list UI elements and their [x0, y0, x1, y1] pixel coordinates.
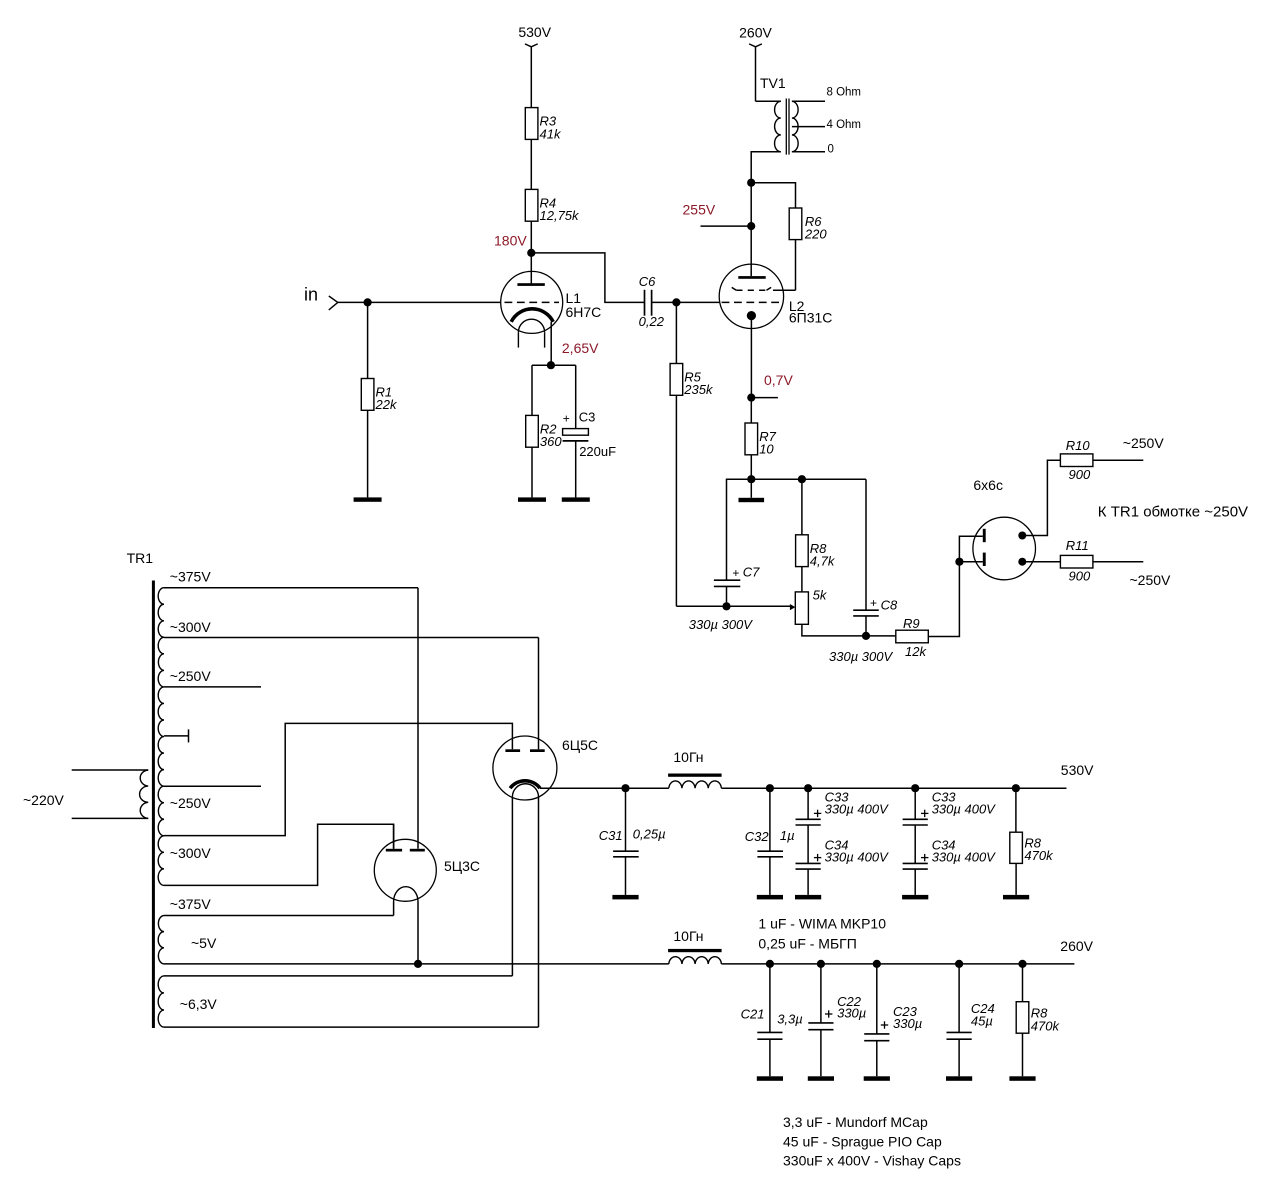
wire	[531, 447, 533, 497]
svg-text:4,7k: 4,7k	[810, 554, 836, 569]
6x6c plate bar lower	[983, 553, 986, 566]
rectifier tube 5Ts3S envelope	[374, 839, 436, 901]
wire R9 to rectifier	[928, 536, 983, 636]
ground	[795, 895, 821, 900]
ground	[864, 1076, 890, 1081]
rectifier tube 6x6c envelope	[973, 517, 1036, 580]
5Ts3S filament arc	[394, 887, 418, 902]
node C33/C34 junction	[911, 784, 919, 792]
svg-text:8 Ohm: 8 Ohm	[827, 87, 862, 99]
resistor R1 22k	[361, 379, 374, 411]
svg-text:330µ 400V: 330µ 400V	[825, 802, 889, 817]
TR1 6,3V winding	[158, 976, 164, 1027]
svg-text:2,65V: 2,65V	[562, 340, 599, 356]
wire	[367, 302, 369, 378]
svg-text:+: +	[732, 566, 739, 580]
L2 screen grid dashed	[732, 287, 737, 290]
node C7 bottom junction	[722, 602, 730, 610]
svg-text:TR1: TR1	[127, 550, 154, 566]
6Ts5S plate bar right	[530, 749, 545, 752]
wire cathode upper to R10	[1022, 460, 1060, 535]
svg-text:180V: 180V	[494, 233, 527, 249]
ground	[902, 895, 928, 900]
resistor R10 900	[1060, 454, 1093, 467]
svg-text:260V: 260V	[1060, 938, 1093, 954]
svg-text:3,3 uF - Mundorf MCap: 3,3 uF - Mundorf MCap	[783, 1114, 928, 1130]
wire	[750, 455, 752, 479]
ground	[612, 895, 638, 900]
svg-text:330µ 300V: 330µ 300V	[829, 649, 893, 664]
wire	[755, 47, 757, 102]
svg-text:~375V: ~375V	[170, 569, 212, 585]
svg-text:in: in	[304, 285, 318, 305]
5Ts3S plate bar left	[386, 849, 402, 852]
svg-text:330µ 400V: 330µ 400V	[932, 802, 996, 817]
TV1 tap 4 Ohm	[792, 126, 825, 128]
wire	[959, 561, 982, 563]
wire input	[338, 301, 501, 303]
node C32 junction	[766, 784, 774, 792]
ground	[757, 895, 783, 900]
wire tap to 5Ts3S right plate	[417, 588, 419, 849]
TR1 tap ~300V upper	[164, 637, 539, 639]
5Ts3S filament left leg	[393, 902, 395, 916]
pentode L2 6P31S envelope	[719, 264, 783, 328]
node cathode R7 junction	[747, 394, 755, 402]
TR1 HV winding	[158, 588, 164, 886]
svg-text:220: 220	[804, 227, 827, 242]
TV1 primary winding	[775, 101, 781, 152]
svg-text:45 uF - Sprague PIO Cap: 45 uF - Sprague PIO Cap	[783, 1134, 942, 1150]
L1 anode lead and plate	[517, 283, 544, 286]
svg-text:4 Ohm: 4 Ohm	[827, 119, 862, 131]
L2 cathode dot	[747, 311, 756, 320]
TR1 tap ~375V upper	[164, 587, 418, 589]
svg-text:45µ: 45µ	[971, 1014, 993, 1029]
wire	[1015, 788, 1017, 832]
wire 0,7V stub	[751, 397, 778, 399]
svg-text:R9: R9	[903, 616, 920, 631]
svg-text:~250V: ~250V	[170, 668, 212, 684]
svg-text:C32: C32	[745, 829, 770, 844]
svg-text:0: 0	[828, 144, 834, 156]
wire	[801, 479, 803, 535]
L2 cathode lead	[750, 316, 752, 398]
L1 grid dashed	[505, 301, 560, 303]
wire cathode network	[532, 364, 576, 366]
5Ts3S plate bar right	[410, 849, 425, 852]
svg-text:+: +	[870, 596, 877, 610]
L1 cathode arc	[511, 309, 553, 322]
svg-text:330uF x 400V - Vishay Caps: 330uF x 400V - Vishay Caps	[783, 1152, 961, 1168]
TV1 secondary winding	[792, 101, 798, 152]
L2 anode lead	[750, 226, 752, 276]
svg-text:530V: 530V	[1061, 762, 1094, 778]
svg-text:~300V: ~300V	[170, 845, 212, 861]
node C6/R5 junction	[672, 298, 680, 306]
svg-text:C3: C3	[579, 410, 596, 425]
TR1 core	[152, 581, 155, 1029]
svg-text:C21: C21	[741, 1007, 765, 1022]
svg-text:~300V: ~300V	[170, 619, 212, 635]
ground	[518, 497, 546, 501]
ground	[757, 1076, 783, 1081]
svg-text:530V: 530V	[518, 24, 551, 40]
6x6c plate bar upper	[983, 529, 986, 542]
wire	[530, 139, 532, 189]
L1 heater arc	[518, 319, 544, 332]
svg-text:~6,3V: ~6,3V	[180, 996, 218, 1012]
TR1 center tap	[164, 735, 189, 737]
capacitor C23 330u	[876, 964, 878, 1034]
potentiometer 5k	[795, 592, 808, 624]
svg-text:0,7V: 0,7V	[764, 372, 793, 388]
node TV1/R6 junction	[747, 179, 755, 187]
svg-text:10Гн: 10Гн	[673, 928, 703, 944]
svg-text:255V: 255V	[683, 202, 716, 218]
svg-text:330µ: 330µ	[893, 1016, 922, 1031]
svg-text:+: +	[563, 411, 570, 425]
svg-text:~250V: ~250V	[1123, 435, 1165, 451]
capacitor C32 1u	[769, 788, 771, 851]
svg-text:~220V: ~220V	[23, 792, 65, 808]
wire 6,3V bottom to heater	[538, 797, 540, 1027]
6Ts5S heater arc	[512, 784, 538, 797]
ground	[1003, 895, 1029, 900]
wire R5 to wiper	[675, 395, 677, 606]
node C22 junction	[817, 960, 825, 968]
svg-text:0,22: 0,22	[639, 314, 665, 329]
L1 cathode wire	[550, 322, 552, 365]
rectifier tube 6Ts5S envelope	[493, 736, 557, 800]
6Ts5S plate bar left	[505, 749, 520, 752]
wire primary leads ~220V	[72, 769, 149, 771]
wire	[530, 47, 532, 108]
svg-text:330µ 400V: 330µ 400V	[932, 850, 996, 865]
svg-text:470k: 470k	[1024, 848, 1054, 863]
capacitor C31 0,25u	[625, 788, 627, 851]
wire R6 to screen	[795, 240, 797, 291]
wire 260V rail	[721, 963, 1074, 965]
TR1 tap ~375V lower	[164, 824, 394, 885]
wire	[530, 221, 532, 283]
node R8 260V junction	[1018, 960, 1026, 968]
wire	[367, 410, 369, 497]
node C24 junction	[955, 960, 963, 968]
capacitor C8 330u 300V	[865, 479, 867, 610]
node C33/C34 junction	[804, 784, 812, 792]
TV1 core	[785, 99, 787, 155]
svg-text:R11: R11	[1066, 538, 1089, 553]
svg-text:330µ: 330µ	[837, 1006, 866, 1021]
node C21 junction	[766, 960, 774, 968]
resistor R8 470k lower	[1016, 1002, 1029, 1033]
wire 530V rail	[721, 787, 1066, 789]
wire R10 output	[1093, 459, 1143, 461]
wire C6 to L2 grid	[652, 301, 720, 303]
wire	[1022, 1033, 1024, 1076]
TR1 tap ~300V lower	[164, 723, 512, 835]
L2 control grid dashed	[722, 301, 782, 303]
node 255V junction	[747, 222, 755, 230]
L1 heater stubs	[517, 332, 519, 347]
capacitor C22 330u	[820, 964, 822, 1023]
wire 530V rail	[540, 787, 669, 789]
wire cathode lower to R11	[1022, 561, 1060, 563]
svg-text:6x6c: 6x6c	[973, 477, 1003, 493]
wire 255V stub	[701, 225, 752, 227]
svg-text:R10: R10	[1066, 438, 1091, 453]
wire to C7	[727, 479, 752, 580]
node cathode junction	[547, 361, 555, 369]
wire	[675, 302, 677, 363]
TR1 tap ~250V lower	[164, 785, 261, 787]
TV1 tap 8 Ohm	[792, 100, 825, 102]
svg-text:C6: C6	[639, 274, 656, 289]
svg-text:6Н7С: 6Н7С	[566, 304, 602, 320]
wire R6 branch	[751, 183, 795, 208]
resistor R6 220	[789, 208, 802, 240]
resistor R3 41k	[525, 108, 538, 140]
svg-text:TV1: TV1	[760, 75, 786, 91]
resistor R5 235k	[670, 364, 683, 396]
node C8 bottom junction	[862, 632, 870, 640]
svg-text:10: 10	[759, 442, 774, 457]
6x6c cathode dot upper	[1018, 532, 1026, 540]
svg-text:К TR1 обмотке ~250V: К TR1 обмотке ~250V	[1098, 503, 1248, 520]
node 180V junction	[527, 249, 535, 257]
svg-text:22k: 22k	[375, 397, 398, 412]
wire R11 output	[1093, 561, 1143, 563]
wire 260V rail from TR1	[164, 963, 669, 965]
capacitor C21 3,3u	[769, 964, 771, 1033]
resistor R2 360	[526, 415, 539, 447]
svg-text:330µ 400V: 330µ 400V	[825, 850, 889, 865]
svg-text:1 uF - WIMA MKP10: 1 uF - WIMA MKP10	[758, 916, 886, 932]
ground	[946, 1076, 972, 1081]
capacitor C7 330u 300V	[714, 579, 740, 581]
svg-text:220uF: 220uF	[579, 444, 616, 459]
node C23 junction	[873, 960, 881, 968]
svg-text:260V: 260V	[739, 25, 772, 41]
node R7 bottom junction	[747, 475, 755, 483]
resistor R8 470k upper	[1010, 832, 1023, 863]
svg-text:12,75k: 12,75k	[540, 208, 581, 223]
node R8 top junction	[798, 475, 806, 483]
svg-text:3,3µ: 3,3µ	[777, 1012, 803, 1027]
svg-text:235k: 235k	[683, 382, 714, 397]
capacitor C33 330u 400V	[807, 788, 809, 819]
wire	[1022, 964, 1024, 1002]
capacitor C34 330u 400V	[914, 825, 916, 863]
svg-text:900: 900	[1069, 467, 1091, 482]
ground	[808, 1076, 834, 1081]
choke 10Gn lower	[668, 949, 722, 952]
TR1 primary winding	[140, 770, 149, 818]
svg-text:12k: 12k	[905, 644, 927, 659]
node input junction	[364, 298, 372, 306]
L2 plate	[738, 276, 765, 279]
svg-text:1µ: 1µ	[780, 828, 795, 843]
choke 10Gn upper	[668, 774, 722, 777]
wire pot bottom	[802, 624, 896, 636]
wire TV1 primary bottom	[751, 152, 781, 226]
svg-text:0,25 uF - МБГП: 0,25 uF - МБГП	[758, 935, 856, 951]
wire tap to 6Ts5S right plate	[538, 638, 540, 750]
5Ts3S left plate lead	[393, 824, 395, 849]
pot wiper arrow	[790, 604, 795, 610]
TR1 5V winding	[158, 916, 164, 964]
ground	[1009, 1076, 1035, 1081]
resistor R8 4,7k	[796, 535, 809, 567]
capacitor C33 330u 400V	[914, 788, 916, 819]
svg-text:~375V: ~375V	[170, 896, 212, 912]
6Ts5S heater left leg	[511, 797, 513, 976]
ground	[750, 479, 752, 498]
wire anode to C6	[531, 253, 644, 303]
6Ts5S cathode arc	[510, 781, 540, 788]
TR1 tap ~5V top	[164, 915, 394, 917]
capacitor C34 330u 400V	[807, 825, 809, 863]
6x6c cathode dot lower	[1018, 558, 1026, 566]
svg-text:C8: C8	[881, 598, 898, 613]
node rectifier input junction	[955, 558, 963, 566]
capacitor C6 0,22	[644, 290, 646, 316]
resistor R4 12,75k	[525, 189, 538, 221]
svg-text:360: 360	[540, 434, 562, 449]
5Ts3S filament right leg	[417, 902, 419, 964]
svg-text:~250V: ~250V	[1130, 572, 1172, 588]
svg-text:~250V: ~250V	[170, 795, 212, 811]
wire	[1015, 863, 1017, 895]
ground	[354, 497, 382, 501]
svg-text:10Гн: 10Гн	[673, 749, 703, 765]
resistor R9 12k	[896, 630, 929, 643]
resistor R11 900	[1060, 555, 1093, 568]
wire	[750, 398, 752, 423]
svg-text:0,25µ: 0,25µ	[633, 827, 666, 842]
svg-text:6Ц5С: 6Ц5С	[562, 737, 598, 753]
svg-text:330µ 300V: 330µ 300V	[689, 617, 753, 632]
capacitor C24 45u	[958, 964, 960, 1033]
svg-text:C31: C31	[599, 828, 623, 843]
svg-text:C7: C7	[743, 564, 760, 579]
triode L1 6N7S envelope	[501, 271, 563, 333]
TR1 tap ~6,3V bottom	[164, 1026, 539, 1028]
resistor R7 10	[745, 423, 758, 455]
TV1 tap 0	[792, 151, 825, 153]
svg-text:900: 900	[1069, 568, 1091, 583]
svg-text:5k: 5k	[813, 588, 828, 603]
ground	[562, 497, 590, 501]
svg-text:470k: 470k	[1031, 1019, 1061, 1034]
wire to R8 and C8	[751, 478, 866, 480]
svg-text:5Ц3С: 5Ц3С	[444, 858, 480, 874]
node R8 rail junction	[1012, 784, 1020, 792]
node C31 junction	[621, 784, 629, 792]
wire	[801, 567, 803, 592]
TR1 tap ~250V upper	[164, 686, 261, 688]
svg-text:6П31С: 6П31С	[789, 310, 833, 326]
capacitor C3 220uF	[575, 365, 577, 428]
TR1 tap ~6,3V top	[164, 975, 512, 977]
svg-text:41k: 41k	[540, 126, 562, 141]
node filament output	[414, 960, 422, 968]
svg-text:~5V: ~5V	[191, 935, 217, 951]
